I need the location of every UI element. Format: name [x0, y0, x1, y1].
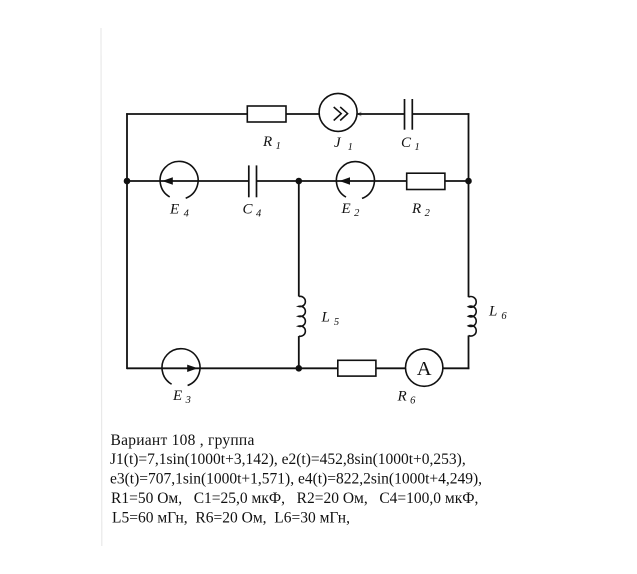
wire bottom left segment through E3 to R6 [127, 367, 338, 369]
svg-text:R1=50 Ом, C1=25,0 мкФ, R2=: R1=50 Ом, C1=25,0 мкФ, R2=20 Ом, C4=100,… [111, 490, 478, 507]
svg-text:R6: R6 [397, 389, 417, 407]
wire J1 to C1 [357, 113, 404, 115]
EMF source E4 [160, 161, 198, 198]
arrowhead at J1 right terminal [357, 112, 362, 117]
inductor L5 [299, 296, 306, 336]
current source J1 [319, 93, 357, 131]
wire row2 left segment through E4 to C4 [127, 180, 249, 182]
wire top-left horizontal segment [126, 113, 247, 115]
wire R2 to right node [445, 180, 469, 182]
svg-text:L5=60 мГн, R6=20 Ом, L6=30 м: L5=60 мГн, R6=20 Ом, L6=30 мГн, [112, 509, 350, 526]
scan artifact faint line [100, 28, 103, 546]
svg-text:E2: E2 [341, 201, 361, 219]
resistor R6 [338, 360, 376, 376]
svg-text:A: A [417, 358, 432, 380]
node bottom middle [296, 365, 303, 372]
wire middle vertical upper (node to L5) [298, 181, 300, 297]
wire middle vertical lower (L5 to bottom node) [298, 336, 300, 368]
wire R6 to ammeter [376, 367, 406, 369]
node left (row2) [124, 178, 131, 185]
svg-text:J1: J1 [334, 135, 353, 153]
wire R1 to J1 [286, 113, 319, 115]
wire C4 through E2 to R2 [257, 180, 407, 182]
node right (row2) [465, 178, 472, 185]
resistor R1 [247, 106, 286, 122]
svg-text:L6: L6 [488, 304, 507, 323]
svg-text:J1(t)=7,1sin(1000t+3,142), e2(: J1(t)=7,1sin(1000t+3,142), e2(t)=452,8si… [110, 451, 466, 468]
wire right vertical upper (to L6) [468, 113, 470, 297]
ammeter A [406, 349, 443, 386]
svg-text:R1: R1 [262, 134, 281, 152]
svg-text:e3(t)=707,1sin(1000t+1,571), e: e3(t)=707,1sin(1000t+1,571), e4(t)=822,2… [110, 471, 482, 488]
capacitor C4 [249, 165, 257, 197]
wire left vertical [126, 113, 128, 369]
svg-text:C4: C4 [243, 202, 263, 220]
wire ammeter to bottom-right corner [443, 367, 470, 369]
svg-text:Вариант 108 , группа: Вариант 108 , группа [111, 432, 255, 449]
wire right vertical lower (L6 to corner) [468, 336, 470, 370]
inductor L6 [469, 297, 477, 336]
EMF source E3 [162, 349, 200, 386]
svg-text:E3: E3 [172, 388, 191, 406]
capacitor C1 [405, 99, 413, 130]
EMF source E2 [336, 162, 374, 199]
node middle (row2) [296, 178, 303, 185]
svg-text:C1: C1 [401, 135, 420, 153]
svg-text:R2: R2 [411, 201, 431, 219]
wire C1 to top-right corner [412, 113, 469, 115]
resistor R2 [407, 173, 445, 189]
svg-text:E4: E4 [169, 202, 190, 220]
svg-text:L5: L5 [321, 310, 340, 329]
